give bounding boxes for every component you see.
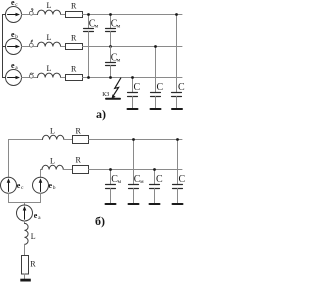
capacitor Cm b col2 (129, 140, 139, 204)
node row1-col5 (175, 13, 178, 16)
ground bar under bolt (106, 98, 120, 100)
ground solid bar (20, 279, 31, 282)
capacitor Cm row2-row3 column (106, 47, 116, 78)
svg-text:м: м (117, 24, 121, 30)
label L b2 (50, 157, 55, 166)
terminal a row3 (29, 73, 33, 78)
wire row3 source to terminal (22, 77, 30, 79)
node b2-col3 (153, 168, 156, 171)
resistor R row3 (66, 75, 83, 81)
wire b2 L to R (63, 169, 72, 171)
label R row1 (71, 2, 77, 11)
inductor L b1 (43, 135, 64, 139)
wire join sources (9, 193, 41, 205)
wire row2 to right end (83, 46, 183, 48)
svg-text:С: С (178, 82, 185, 93)
svg-text:С: С (134, 82, 141, 93)
svg-text:R: R (30, 260, 36, 269)
label e_b (11, 30, 18, 40)
node row3-col1 (87, 76, 90, 79)
svg-text:b: b (53, 185, 56, 191)
inductor L row3 (38, 73, 61, 77)
wire row2 L to R (61, 46, 66, 48)
wire row3 terminal to L (33, 77, 37, 79)
svg-text:R: R (76, 156, 82, 165)
terminal b row2 (29, 40, 33, 47)
node row1-col1 (87, 13, 90, 16)
node row2-col4 (154, 45, 157, 48)
svg-text:м: м (117, 58, 121, 64)
label L vertical (31, 232, 36, 241)
resistor R row2 (66, 44, 83, 50)
capacitor C phase b to ground (151, 47, 161, 109)
wire row1 L to R (61, 14, 66, 16)
label e_b b (49, 181, 56, 191)
svg-text:б): б) (95, 214, 105, 228)
svg-text:R: R (71, 65, 77, 74)
inductor L b2 (42, 165, 63, 169)
label Cm col2 upper (111, 19, 121, 30)
wire e_a to L (24, 221, 26, 223)
ground b col3 (150, 203, 160, 205)
svg-text:b: b (15, 34, 18, 40)
wire R to ground (24, 274, 26, 279)
wire left bus (3, 15, 6, 78)
inductor L row2 (38, 42, 61, 46)
svg-text:С: С (179, 174, 186, 185)
source e_c (6, 7, 22, 23)
resistor R b2 (73, 166, 89, 174)
node b1-col2 (132, 138, 135, 141)
capacitor Cm row1-row2 column (106, 15, 116, 47)
label R row2 (71, 34, 77, 43)
label a) (96, 107, 106, 121)
svg-text:КЗ: КЗ (102, 92, 109, 98)
resistor R b1 (73, 136, 89, 144)
label Cm b col1 (111, 174, 121, 185)
capacitor Cm row1-row3 column (84, 15, 94, 78)
label L row1 (47, 1, 52, 10)
ground col4 (151, 108, 161, 110)
svg-text:L: L (47, 64, 52, 73)
svg-text:С: С (156, 174, 163, 185)
svg-text:L: L (50, 127, 55, 136)
terminal c row1 (29, 9, 33, 16)
wire row1 to right end (83, 14, 183, 16)
short-circuit bolt KZ (112, 78, 121, 99)
svg-text:м: м (140, 179, 144, 185)
label R vertical (30, 260, 36, 269)
wire b branch1 left + down (9, 140, 43, 178)
label e_c b (17, 181, 24, 191)
svg-text:L: L (31, 232, 36, 241)
label L row2 (47, 33, 52, 42)
svg-text:L: L (47, 1, 52, 10)
source e_a (6, 70, 22, 86)
wire row2 terminal to L (33, 46, 37, 48)
node row2-col2 (109, 45, 112, 48)
svg-text:R: R (71, 2, 77, 11)
svg-text:с: с (21, 185, 24, 191)
capacitor C b col3 (150, 170, 160, 204)
capacitor C b col4 (173, 140, 183, 204)
svg-text:R: R (71, 34, 77, 43)
svg-text:L: L (50, 157, 55, 166)
node row3-col2 (109, 76, 112, 79)
svg-text:С: С (157, 82, 164, 93)
ground b col4 (173, 203, 183, 205)
svg-text:R: R (76, 127, 82, 136)
inductor L vertical (24, 223, 28, 244)
svg-text:с: с (15, 2, 18, 8)
resistor R vertical (22, 256, 29, 275)
label C col5 (178, 82, 185, 93)
source e_a b (17, 205, 33, 221)
label Cm b col2 (134, 174, 144, 185)
label L row3 (47, 64, 52, 73)
label C col4 (157, 82, 164, 93)
resistor R row1 (66, 12, 83, 18)
wire b2 to right end (89, 169, 183, 171)
label C b col3 (156, 174, 163, 185)
ground b col1 (106, 203, 116, 205)
node b2-col1 (109, 168, 112, 171)
label R b2 (76, 156, 82, 165)
label e_a b (34, 211, 41, 221)
wire row1 source to terminal (22, 14, 30, 16)
svg-text:а: а (38, 215, 41, 221)
ground col3 (128, 108, 138, 110)
capacitor C phase c to ground (172, 15, 182, 109)
wire b branch2 left down to source (41, 170, 43, 178)
source e_c b (1, 177, 17, 193)
wire b1 L to R (64, 139, 73, 141)
ground b col2 (129, 203, 139, 205)
svg-text:м: м (95, 24, 99, 30)
wire row1 terminal to L (33, 14, 37, 16)
svg-text:а): а) (96, 107, 106, 121)
label L b1 (50, 127, 55, 136)
wire row3 to right end (83, 77, 183, 79)
label e_c (11, 0, 18, 8)
ground col5 (172, 108, 182, 110)
node b1-col4 (176, 138, 179, 141)
label C b col4 (179, 174, 186, 185)
svg-text:L: L (47, 33, 52, 42)
wire row3 L to R (61, 77, 66, 79)
wire row2 source to terminal (22, 46, 30, 48)
label R row3 (71, 65, 77, 74)
wire b1 to right end (89, 139, 183, 141)
label R b1 (76, 127, 82, 136)
label Cm col1 (89, 19, 99, 30)
capacitor C phase a to ground (128, 78, 138, 109)
capacitor Cm b col1 (106, 170, 116, 204)
source e_b b (33, 177, 49, 193)
label b) (95, 214, 105, 228)
node row3-col3 (131, 76, 134, 79)
svg-text:а: а (15, 65, 18, 71)
wire L to R (24, 244, 26, 255)
label Cm col2 lower (111, 53, 121, 64)
source e_b (6, 39, 22, 55)
label KZ (102, 92, 109, 98)
label e_a (11, 61, 18, 71)
node row1-col2 (109, 13, 112, 16)
svg-text:м: м (118, 179, 122, 185)
inductor L row1 (38, 10, 61, 14)
label C col3 (134, 82, 141, 93)
